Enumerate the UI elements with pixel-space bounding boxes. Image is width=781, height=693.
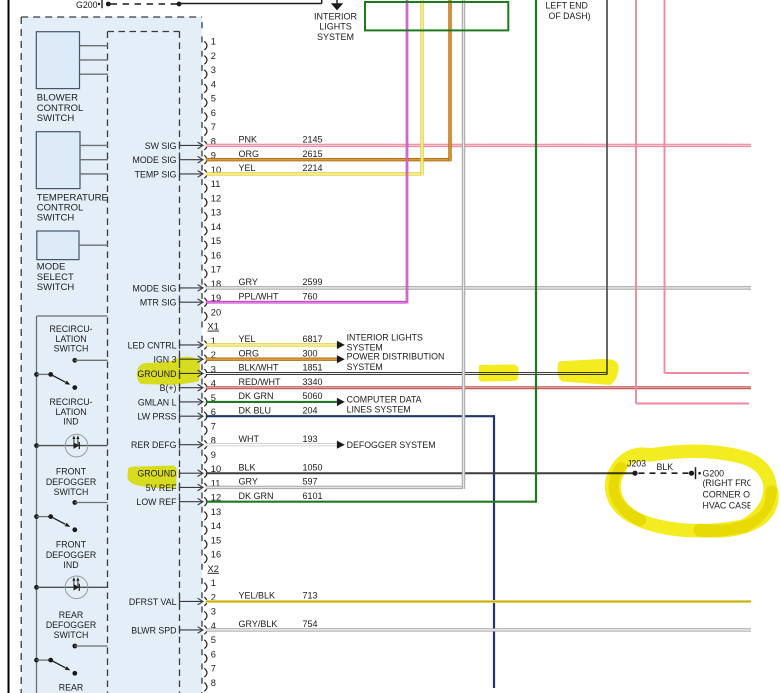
svg-text:X1: X1 xyxy=(208,322,219,332)
pin 5 (X2) xyxy=(204,635,216,649)
wire ORG 2615 (pin 9): right then up at x=450 xyxy=(206,158,450,161)
wire WHT 193 (X1-8, RER DEFG) xyxy=(206,443,337,446)
blower switch stub wires xyxy=(80,45,109,47)
pin 6 (X1) xyxy=(204,407,216,421)
svg-text:BLWR SPD: BLWR SPD xyxy=(131,625,176,635)
pin 18 (top connector) xyxy=(204,279,221,293)
pin 10 (X1) xyxy=(204,464,221,478)
svg-text:DEFOGGER: DEFOGGER xyxy=(46,550,96,560)
svg-text:GRY: GRY xyxy=(239,477,258,487)
wire ORG 300 (X1-2, IGN 3) xyxy=(206,358,337,361)
wire RED/WHT 3340 (X1-4, B+) xyxy=(206,386,751,389)
svg-text:1: 1 xyxy=(211,578,216,588)
svg-text:G200: G200 xyxy=(76,0,98,10)
svg-text:POWER DISTRIBUTION: POWER DISTRIBUTION xyxy=(347,352,445,362)
wire YEL 6817 (X1-1, LED CNTRL) xyxy=(206,343,337,346)
svg-text:17: 17 xyxy=(211,265,221,275)
svg-text:3: 3 xyxy=(211,607,216,617)
pin 14 (X1) xyxy=(204,521,221,535)
wire PPL/WHT 760 (pin 19): right then up at x=407 xyxy=(206,301,407,304)
svg-text:SYSTEM: SYSTEM xyxy=(317,32,354,42)
svg-text:14: 14 xyxy=(211,222,221,232)
svg-text:SWITCH: SWITCH xyxy=(37,213,75,224)
signal GROUND (X1 pin3) xyxy=(137,369,203,379)
signal GROUND (X1 pin10) xyxy=(137,469,203,479)
svg-text:GMLAN L: GMLAN L xyxy=(138,397,177,407)
pin 1 (top connector) xyxy=(204,37,216,51)
pin 8 (X2) xyxy=(204,678,216,692)
svg-text:754: 754 xyxy=(303,619,318,629)
wire PNK 2145 (pin 8, SW SIG) xyxy=(206,144,751,147)
signal TEMP SIG xyxy=(135,169,203,179)
svg-text:11: 11 xyxy=(211,179,221,189)
svg-text:PNK: PNK xyxy=(239,135,258,145)
wire GRY 2599 (pin 18) xyxy=(206,286,751,289)
svg-text:13: 13 xyxy=(211,208,221,218)
svg-text:LOW REF: LOW REF xyxy=(136,497,177,507)
svg-text:1851: 1851 xyxy=(303,363,323,373)
highlighter mark over GROUND (X1-10) label xyxy=(128,466,177,489)
svg-text:16: 16 xyxy=(211,550,221,560)
pin 6 (top connector) xyxy=(204,108,216,122)
arrow to computer data lines system xyxy=(337,398,345,406)
signal RER DEFG xyxy=(131,440,203,450)
pin 4 (X2) xyxy=(204,621,216,635)
pin 20 (top connector) xyxy=(204,307,221,321)
pin 16 (X1) xyxy=(204,550,221,564)
svg-text:6: 6 xyxy=(211,108,216,118)
pink feeder wire 1: down x=636 then right at y=403.5 xyxy=(635,0,637,404)
signal B(+) xyxy=(160,383,203,393)
pin 7 (top connector) xyxy=(204,122,216,136)
wire BLK 1050 (X1-10, GROUND) to splice J203 xyxy=(206,472,635,474)
highlighter mark over GROUND (X1-3) label xyxy=(137,357,200,385)
svg-text:SYSTEM: SYSTEM xyxy=(347,362,383,372)
svg-text:204: 204 xyxy=(303,405,318,415)
svg-text:MTR SIG: MTR SIG xyxy=(140,298,177,308)
pin 13 (top connector) xyxy=(204,208,221,222)
pin 12 (X1) xyxy=(204,493,221,507)
signal DFRST VAL xyxy=(129,597,203,607)
svg-text:2615: 2615 xyxy=(303,149,323,159)
HVAC control module panel (dashed box, blue fill) xyxy=(21,17,202,693)
pin 1 (X2) xyxy=(204,578,216,592)
svg-text:9: 9 xyxy=(211,450,216,460)
svg-text:ORG: ORG xyxy=(239,348,260,358)
svg-text:DFRST VAL: DFRST VAL xyxy=(129,597,177,607)
svg-text:LEFT END: LEFT END xyxy=(546,1,588,11)
signal LOW REF xyxy=(136,497,203,507)
left page border line xyxy=(8,0,10,693)
svg-text:YEL/BLK: YEL/BLK xyxy=(239,591,276,601)
svg-text:SWITCH: SWITCH xyxy=(54,630,89,640)
wire DK BLU 204 (X1-6, LW PRSS): right then down at x=494 xyxy=(206,415,494,417)
wire DK GRN 6101 (X1-12, LOW REF): right then up at x=536 xyxy=(206,501,536,503)
pin 12 (top connector) xyxy=(204,193,221,207)
temperature control switch box xyxy=(36,132,80,189)
svg-text:1050: 1050 xyxy=(303,462,323,472)
pin 2 (X1) xyxy=(204,350,216,364)
signal SW SIG xyxy=(145,141,203,151)
svg-text:760: 760 xyxy=(303,291,318,301)
svg-text:DK GRN: DK GRN xyxy=(239,491,274,501)
pin 19 (top connector) xyxy=(204,293,221,307)
pin 11 (top connector) xyxy=(204,179,220,193)
pin 17 (top connector) xyxy=(204,265,221,279)
svg-text:8: 8 xyxy=(211,678,216,688)
pin 8 (top connector) xyxy=(204,136,216,150)
svg-text:PPL/WHT: PPL/WHT xyxy=(239,291,280,301)
svg-text:14: 14 xyxy=(211,521,221,531)
svg-text:597: 597 xyxy=(303,477,318,487)
svg-text:2599: 2599 xyxy=(303,277,323,287)
signal GMLAN L xyxy=(138,397,203,407)
pin 16 (top connector) xyxy=(204,250,221,264)
highlighter stroke on BLK/WHT wire (right) xyxy=(558,359,619,385)
svg-text:5060: 5060 xyxy=(303,391,323,401)
arrow from interior lights (top) xyxy=(336,0,338,4)
pin 15 (X1) xyxy=(204,535,221,549)
signal MTR SIG xyxy=(140,298,203,308)
pin 9 (X1) xyxy=(204,450,216,464)
svg-text:YEL: YEL xyxy=(239,163,256,173)
arrow to interior lights system xyxy=(337,341,345,349)
svg-text:7: 7 xyxy=(211,664,216,674)
svg-text:6: 6 xyxy=(211,649,216,659)
pin 10 (top connector) xyxy=(204,165,221,179)
svg-text:LW PRSS: LW PRSS xyxy=(138,412,177,422)
temperature switch stub wires xyxy=(80,144,108,146)
wire GRY 597 (X1-11, 5V REF): right then up at x=463.5 xyxy=(206,486,464,489)
pink feeder wire 2: down x=664.5 then right at y=373.0 xyxy=(664,0,666,373)
pin 3 (X2) xyxy=(204,607,216,621)
svg-text:5: 5 xyxy=(211,94,216,104)
svg-text:OF DASH): OF DASH) xyxy=(549,11,591,21)
signal IGN 3 xyxy=(154,355,203,365)
svg-text:300: 300 xyxy=(303,348,318,358)
svg-text:IND: IND xyxy=(63,417,78,427)
front defogger switch S2 xyxy=(34,500,107,532)
pin 9 (top connector) xyxy=(204,151,216,165)
svg-text:2: 2 xyxy=(211,51,216,61)
pin 3 (X1) xyxy=(204,364,216,378)
svg-text:2145: 2145 xyxy=(303,135,323,145)
inner control-head dashed box xyxy=(108,31,180,33)
svg-text:LED CNTRL: LED CNTRL xyxy=(128,340,177,350)
svg-text:SWITCH: SWITCH xyxy=(37,113,75,124)
front defogger indicator LED xyxy=(34,576,107,599)
svg-text:HVAC CASE): HVAC CASE) xyxy=(703,501,756,511)
svg-text:IND: IND xyxy=(63,560,78,570)
svg-text:13: 13 xyxy=(211,507,221,517)
pin 2 (X2) xyxy=(204,592,216,606)
svg-text:12: 12 xyxy=(211,193,221,203)
signal LED CNTRL xyxy=(128,340,203,350)
svg-text:RER DEFG: RER DEFG xyxy=(131,440,177,450)
svg-text:SWITCH: SWITCH xyxy=(54,344,89,354)
highlighter loop around J203/G200 xyxy=(612,451,770,531)
svg-text:15: 15 xyxy=(211,236,221,246)
svg-text:LINES SYSTEM: LINES SYSTEM xyxy=(347,405,411,415)
svg-text:DEFOGGER SYSTEM: DEFOGGER SYSTEM xyxy=(347,440,436,450)
signal 5V REF xyxy=(146,483,203,493)
svg-text:GRY: GRY xyxy=(239,277,258,287)
svg-text:15: 15 xyxy=(211,535,221,545)
svg-text:RECIRCU-: RECIRCU- xyxy=(49,324,92,334)
recirculation indicator LED xyxy=(34,434,107,457)
svg-text:DEFOGGER: DEFOGGER xyxy=(46,620,96,630)
signal BLWR SPD xyxy=(131,625,203,635)
svg-text:2214: 2214 xyxy=(303,163,323,173)
signal MODE SIG (pin 18) xyxy=(133,283,204,293)
mode switch stub wire xyxy=(79,244,108,246)
svg-text:4: 4 xyxy=(211,79,216,89)
svg-text:YEL: YEL xyxy=(239,334,256,344)
pin 7 (X2) xyxy=(204,664,216,678)
green connector box (top) xyxy=(365,2,508,30)
svg-text:MODE SIG: MODE SIG xyxy=(133,283,177,293)
signal MODE SIG (pin 9) xyxy=(133,155,204,165)
pin 5 (top connector) xyxy=(204,94,216,108)
svg-text:SWITCH: SWITCH xyxy=(54,487,89,497)
signal LW PRSS xyxy=(138,412,203,422)
wire YEL 2214 (pin 10): right then up at x=422 xyxy=(206,172,422,175)
wire YEL/BLK 713 (X2-2, DFRST VAL) xyxy=(206,600,751,603)
svg-text:BLK/WHT: BLK/WHT xyxy=(239,363,280,373)
svg-text:1: 1 xyxy=(211,37,216,47)
svg-text:FRONT: FRONT xyxy=(56,467,87,477)
wire DK GRN 5060 (X1-5, GMLAN L) xyxy=(206,401,337,403)
svg-text:INTERIOR: INTERIOR xyxy=(314,12,358,22)
pin 14 (top connector) xyxy=(204,222,221,236)
pin 8 (X1) xyxy=(204,436,216,450)
svg-text:3: 3 xyxy=(211,65,216,75)
svg-text:TEMP SIG: TEMP SIG xyxy=(135,169,177,179)
svg-text:X2: X2 xyxy=(208,564,219,574)
svg-text:CORNER OF: CORNER OF xyxy=(703,490,756,500)
svg-text:20: 20 xyxy=(211,307,221,317)
svg-text:RED/WHT: RED/WHT xyxy=(239,377,281,387)
svg-text:GRY/BLK: GRY/BLK xyxy=(239,619,278,629)
svg-text:DEFOGGER: DEFOGGER xyxy=(46,477,96,487)
pin 2 (top connector) xyxy=(204,51,216,65)
pin 3 (top connector) xyxy=(204,65,216,79)
svg-text:INTERIOR LIGHTS: INTERIOR LIGHTS xyxy=(347,332,423,342)
blower control switch box xyxy=(36,32,79,89)
svg-text:713: 713 xyxy=(303,591,318,601)
svg-text:REAR: REAR xyxy=(59,610,83,620)
svg-text:BLK: BLK xyxy=(657,462,674,472)
wire BLK/WHT 1851 (X1-3, GROUND): right then up at x=607 to G200 xyxy=(206,372,607,375)
connector body dashed line xyxy=(201,22,203,693)
svg-text:MODE SIG: MODE SIG xyxy=(133,155,177,165)
pin 5 (X1) xyxy=(204,393,216,407)
pin 11 (X1) xyxy=(204,478,220,492)
svg-text:LIGHTS: LIGHTS xyxy=(319,22,352,32)
rail top wire to control head xyxy=(37,315,108,317)
pin 4 (top connector) xyxy=(204,79,216,93)
pin 13 (X1) xyxy=(204,507,221,521)
svg-text:193: 193 xyxy=(303,434,318,444)
svg-text:DK GRN: DK GRN xyxy=(239,391,274,401)
svg-text:BLK: BLK xyxy=(239,462,256,472)
svg-text:REAR: REAR xyxy=(59,683,83,693)
ground G200 (right front corner of HVAC case) xyxy=(689,471,694,476)
pin 4 (X1) xyxy=(204,379,216,393)
arrow to defogger system xyxy=(337,441,345,449)
svg-text:16: 16 xyxy=(211,250,221,260)
mode select switch box xyxy=(37,231,79,260)
pin 1 (X1) xyxy=(204,336,216,350)
rear defogger switch S3 xyxy=(34,644,107,676)
svg-text:LATION: LATION xyxy=(55,407,86,417)
svg-text:6817: 6817 xyxy=(303,334,323,344)
pin 15 (top connector) xyxy=(204,236,221,250)
arrow to power distribution system xyxy=(337,355,345,363)
svg-text:G200: G200 xyxy=(703,469,725,479)
left common rail wire xyxy=(36,316,38,693)
pin 6 (X2) xyxy=(204,649,216,663)
svg-text:DK BLU: DK BLU xyxy=(239,405,272,415)
svg-text:5: 5 xyxy=(211,635,216,645)
svg-text:7: 7 xyxy=(211,421,216,431)
svg-text:SW SIG: SW SIG xyxy=(145,141,177,151)
svg-text:6101: 6101 xyxy=(303,491,323,501)
wire GRY/BLK 754 (X2-4, BLWR SPD) xyxy=(206,628,751,631)
recirculation switch S1 xyxy=(34,358,107,390)
svg-text:FRONT: FRONT xyxy=(56,540,87,550)
svg-text:7: 7 xyxy=(211,122,216,132)
svg-text:LATION: LATION xyxy=(55,334,86,344)
svg-text:3340: 3340 xyxy=(303,377,323,387)
svg-text:RECIRCU-: RECIRCU- xyxy=(49,397,92,407)
svg-text:SWITCH: SWITCH xyxy=(37,282,75,293)
svg-text:COMPUTER DATA: COMPUTER DATA xyxy=(347,394,422,404)
svg-text:WHT: WHT xyxy=(239,434,260,444)
pin 7 (X1) xyxy=(204,421,216,435)
svg-text:ORG: ORG xyxy=(239,149,260,159)
highlighter stroke on BLK/WHT wire (left) xyxy=(479,365,519,382)
